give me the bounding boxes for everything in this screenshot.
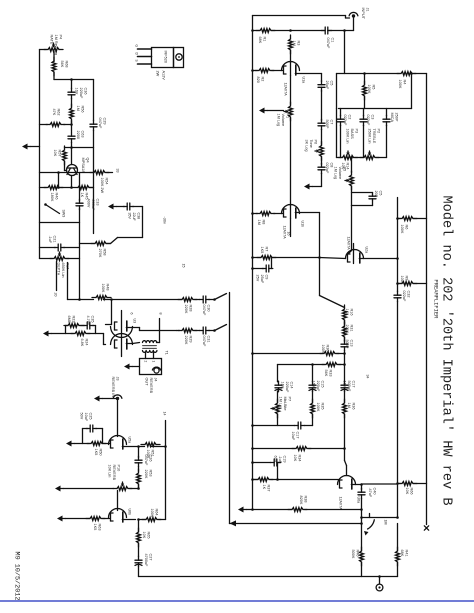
resistor R1	[256, 29, 275, 33]
wire	[398, 283, 401, 285]
svg-text:500P: 500P	[325, 120, 329, 129]
label U1B type	[283, 226, 287, 240]
label R28 value	[184, 305, 193, 314]
wire	[253, 353, 323, 355]
wire	[111, 300, 113, 325]
capacitor C38	[123, 203, 134, 210]
svg-text:12AX7A: 12AX7A	[284, 83, 288, 97]
label R24 value	[80, 339, 89, 347]
capacitor C2	[337, 115, 344, 126]
svg-text:1M: 1M	[76, 106, 80, 111]
wire	[321, 129, 323, 144]
wire	[40, 258, 53, 260]
label C1 value	[326, 38, 335, 49]
svg-text:C36: C36	[84, 88, 88, 95]
svg-text:U1a: U1a	[302, 77, 306, 84]
wire	[142, 207, 144, 238]
ground	[57, 516, 66, 522]
ground	[124, 364, 133, 370]
svg-text:6: 6	[130, 313, 134, 315]
svg-text:047uF: 047uF	[202, 336, 206, 347]
wire	[253, 448, 295, 450]
wire	[139, 328, 141, 331]
wire	[107, 172, 113, 174]
svg-text:820: 820	[256, 77, 260, 83]
label R40 value	[351, 550, 360, 559]
svg-text:1K8: 1K8	[345, 309, 349, 316]
svg-text:TREBLE: TREBLE	[372, 129, 376, 144]
VR1 pin S lead	[138, 63, 152, 65]
svg-text:220K: 220K	[184, 305, 188, 314]
capacitor C32	[394, 291, 401, 302]
svg-text:J3: J3	[116, 377, 120, 381]
wire wiper P17	[56, 262, 58, 291]
title text	[439, 196, 454, 506]
potentiometer P2	[360, 156, 379, 160]
node 14	[163, 412, 167, 416]
svg-text:33: 33	[116, 169, 120, 173]
label R64 value	[150, 509, 159, 518]
junction	[251, 478, 254, 481]
wire	[96, 428, 103, 430]
wire	[411, 74, 413, 109]
resistor R33	[322, 363, 341, 367]
svg-text:6M8: 6M8	[67, 316, 71, 323]
wire	[351, 187, 353, 206]
wire	[93, 80, 95, 121]
junction	[396, 257, 399, 260]
svg-text:1M Log: 1M Log	[333, 167, 337, 180]
resistor R54	[90, 171, 109, 175]
svg-text:2200: 2200	[76, 131, 80, 139]
wire	[272, 70, 283, 72]
svg-text:56K: 56K	[324, 370, 328, 377]
triode U3a	[111, 321, 133, 338]
junction	[410, 72, 413, 75]
label R16 value	[345, 309, 354, 316]
svg-text:2W: 2W	[156, 71, 160, 77]
label C36 value	[74, 88, 87, 99]
junction	[70, 78, 73, 81]
svg-text:10uF: 10uF	[84, 413, 88, 422]
svg-text:R41: R41	[405, 550, 409, 557]
svg-text:U6a: U6a	[357, 497, 361, 504]
svg-text:R30: R30	[326, 345, 330, 352]
wire plate U1B	[290, 206, 292, 219]
svg-text:R2: R2	[261, 77, 265, 82]
label C2 value	[343, 115, 352, 126]
label R68 value	[60, 61, 69, 68]
svg-text:C31: C31	[207, 336, 211, 343]
wire	[138, 544, 140, 557]
svg-text:220uF: 220uF	[79, 88, 83, 99]
label C17 value	[291, 432, 300, 441]
wire	[40, 124, 48, 126]
resistor R45	[74, 186, 93, 190]
svg-text:C17: C17	[296, 432, 300, 439]
label U6A type	[339, 497, 343, 511]
svg-text:100K: 100K	[150, 509, 154, 518]
svg-text:25V: 25V	[255, 275, 259, 282]
wire	[397, 198, 399, 219]
wire	[397, 563, 399, 577]
triode U1B	[282, 205, 300, 219]
junction	[251, 29, 254, 32]
label C33 value	[86, 199, 99, 212]
wire	[321, 74, 323, 82]
wire	[346, 17, 350, 19]
svg-text:P2: P2	[377, 129, 381, 134]
wire	[278, 462, 281, 464]
wire	[345, 16, 347, 19]
resistor R56	[70, 104, 74, 123]
junction	[251, 424, 254, 427]
wire	[253, 462, 271, 464]
potentiometer P6	[320, 142, 324, 161]
capacitor C25	[86, 425, 97, 432]
wire	[340, 125, 342, 157]
label C32 value	[402, 291, 411, 302]
svg-text:100K: 100K	[321, 345, 325, 354]
svg-text:R29: R29	[189, 336, 193, 343]
wire	[339, 364, 345, 366]
svg-text:1K5: 1K5	[260, 247, 264, 254]
svg-text:C3: C3	[371, 115, 375, 120]
svg-text:10K: 10K	[293, 455, 297, 462]
wire	[361, 563, 363, 577]
label C63 value	[76, 131, 85, 139]
svg-text:R24: R24	[85, 339, 89, 346]
svg-text:R9: R9	[405, 276, 409, 281]
junction	[251, 256, 254, 259]
junction	[164, 445, 167, 448]
svg-text:820K: 820K	[299, 496, 303, 505]
wire	[53, 73, 55, 80]
svg-text:C17: C17	[352, 381, 356, 388]
potentiometer P2 wiper	[368, 151, 371, 156]
svg-text:1M: 1M	[292, 41, 296, 46]
label R29 value	[184, 336, 193, 345]
svg-text:047uF: 047uF	[326, 38, 330, 49]
capacitor C15	[309, 381, 316, 392]
capacitor C21	[54, 244, 65, 251]
svg-text:100K: 100K	[398, 80, 402, 89]
svg-text:C5: C5	[330, 81, 334, 86]
label C27 value	[144, 554, 153, 568]
label U3	[133, 319, 137, 324]
label C38 value	[128, 213, 141, 222]
junction	[137, 487, 140, 490]
svg-text:68K: 68K	[400, 550, 404, 557]
potentiometer P1 wiper	[284, 110, 289, 113]
wire	[58, 173, 60, 188]
label C3 value	[366, 115, 375, 126]
junction	[343, 29, 346, 32]
junction	[396, 217, 399, 220]
switch SW1 arrow	[364, 531, 369, 536]
svg-text:R28: R28	[189, 305, 193, 312]
wire	[290, 76, 292, 105]
resistor R30	[320, 352, 339, 356]
svg-text:C8: C8	[330, 163, 334, 168]
wire	[277, 463, 279, 480]
wire	[290, 118, 292, 206]
wire	[273, 257, 320, 259]
label R35 value	[316, 403, 325, 412]
capacitor C26	[135, 456, 142, 467]
wire	[361, 485, 363, 490]
switch SW1 blade	[368, 520, 375, 529]
svg-text:100K: 100K	[101, 284, 105, 293]
node 6	[130, 313, 134, 315]
svg-text:1M Log: 1M Log	[278, 397, 282, 410]
wire	[71, 176, 73, 188]
junction	[110, 298, 113, 301]
wire	[337, 73, 400, 75]
wire	[93, 325, 96, 327]
wire jack tip	[353, 18, 355, 31]
label P5 value	[333, 167, 346, 180]
wire	[138, 447, 140, 458]
wire	[362, 483, 398, 485]
svg-text:R64: R64	[155, 509, 159, 516]
ground	[43, 331, 52, 337]
label SW1	[384, 520, 388, 525]
junction	[396, 516, 399, 519]
wire	[272, 30, 325, 32]
svg-text:C1: C1	[331, 38, 335, 43]
switch SW4 blade	[215, 294, 227, 300]
wire	[253, 30, 260, 32]
label R58 value	[98, 249, 107, 258]
label R5 value	[367, 85, 376, 94]
wire	[344, 415, 346, 461]
label R50 value	[94, 449, 103, 456]
label R23 value	[67, 316, 76, 323]
svg-text:R56: R56	[81, 106, 85, 113]
wire	[321, 91, 323, 121]
svg-text:15: 15	[182, 264, 186, 268]
svg-text:35V: 35V	[128, 213, 132, 220]
wire	[344, 351, 346, 382]
wire	[336, 109, 338, 158]
svg-text:P5: P5	[343, 167, 347, 172]
svg-text:C35: C35	[91, 316, 95, 323]
svg-text:R7: R7	[265, 247, 269, 252]
svg-text:IRF520: IRF520	[164, 51, 168, 63]
svg-text:022uF: 022uF	[343, 115, 347, 126]
label J1	[361, 8, 370, 20]
label T1	[165, 351, 169, 355]
junction	[396, 482, 399, 485]
resistor R65	[137, 528, 141, 547]
junction	[396, 282, 399, 285]
wire	[253, 15, 346, 17]
label R7 value	[260, 247, 269, 254]
wire	[104, 443, 111, 445]
svg-text:1K5: 1K5	[93, 524, 97, 531]
resistor R29	[178, 329, 197, 333]
svg-text:C40: C40	[373, 488, 377, 495]
wire	[414, 218, 427, 220]
svg-text:REVERB: REVERB	[149, 378, 153, 394]
resistor R36	[343, 399, 347, 418]
junction	[251, 212, 254, 215]
wire	[305, 425, 313, 427]
svg-text:47K: 47K	[52, 109, 56, 116]
wire	[177, 330, 180, 332]
label U2A	[365, 247, 369, 254]
wire	[344, 31, 346, 74]
svg-text:022uF: 022uF	[325, 163, 329, 174]
label U6B	[128, 509, 132, 516]
svg-text:Mid-Bite: Mid-Bite	[283, 397, 287, 411]
label R65 value	[142, 532, 151, 539]
label R30 value	[321, 345, 330, 354]
wire plate U1A	[290, 63, 292, 76]
svg-text:C26: C26	[149, 455, 153, 462]
ground	[55, 486, 64, 492]
svg-text:R31: R31	[350, 325, 354, 332]
label C40 value	[368, 488, 377, 498]
resistor R23	[64, 324, 83, 328]
svg-text:C27: C27	[149, 554, 153, 561]
label C19 value	[273, 456, 286, 464]
wire	[64, 162, 66, 171]
capacitor C27	[135, 556, 142, 567]
wire mid rail	[79, 173, 81, 201]
svg-text:12AX7A: 12AX7A	[347, 237, 351, 251]
capacitor C40	[358, 488, 365, 499]
capacitor C1	[321, 27, 332, 34]
triode U3b	[111, 334, 133, 350]
resistor R34	[292, 447, 311, 451]
ground arrow tick	[230, 520, 237, 526]
wire	[349, 251, 352, 254]
wire	[253, 213, 258, 215]
label P3 value	[345, 129, 358, 144]
switch SW1 contact	[369, 514, 371, 518]
resistor R51	[141, 443, 160, 447]
junction	[137, 445, 140, 448]
ground	[94, 396, 103, 402]
wire	[71, 99, 73, 107]
label C35 value	[86, 316, 95, 326]
svg-text:20: 20	[54, 293, 58, 297]
capacitor C10	[369, 194, 376, 201]
potentiometer P1	[289, 102, 293, 121]
svg-text:500uF: 500uF	[347, 381, 351, 392]
svg-text:R53: R53	[149, 470, 153, 477]
terminal X	[424, 526, 428, 530]
resistor R31	[343, 322, 347, 341]
wire	[209, 299, 214, 301]
wire	[321, 173, 323, 186]
label U5A	[128, 437, 132, 444]
wire	[138, 467, 140, 472]
triode U5a	[109, 436, 127, 450]
svg-text:22uF: 22uF	[132, 213, 136, 222]
wire	[309, 448, 345, 450]
ground	[66, 441, 75, 447]
switch SW2 blade	[111, 238, 118, 244]
wire	[40, 222, 80, 224]
svg-text:C14: C14	[290, 382, 294, 389]
svg-text:100K: 100K	[316, 403, 320, 412]
wire	[61, 187, 74, 189]
potentiometer P10	[113, 487, 132, 491]
wire	[40, 172, 94, 174]
wire	[103, 334, 105, 345]
wire	[398, 218, 401, 220]
resistor R5	[363, 81, 367, 100]
svg-text:C15: C15	[321, 381, 325, 388]
footer rule	[0, 600, 474, 602]
wire plate U3	[121, 311, 123, 357]
junction	[70, 186, 73, 189]
wire	[67, 258, 80, 260]
svg-text:4700uF: 4700uF	[144, 554, 148, 568]
junction	[360, 516, 363, 519]
svg-text:Model no. 202 '20th Imperial': Model no. 202 '20th Imperial' HW rev B	[439, 196, 454, 506]
svg-text:14: 14	[163, 412, 167, 416]
wire cathode U6a	[351, 484, 361, 486]
label VR1 output	[162, 71, 166, 81]
wire	[153, 353, 155, 359]
wire	[320, 296, 345, 308]
label R45 value	[80, 193, 89, 200]
wire plate U2A	[353, 244, 355, 264]
svg-text:R23: R23	[72, 316, 76, 323]
capacitor C3	[360, 115, 367, 126]
label R63 value	[93, 524, 102, 531]
jack J1	[349, 12, 358, 17]
svg-text:047uF: 047uF	[202, 305, 206, 316]
wire	[352, 205, 373, 207]
label R54 value	[100, 178, 109, 194]
junction	[213, 329, 216, 332]
label C13 value	[345, 340, 354, 349]
svg-text:10K: 10K	[53, 150, 57, 157]
wire	[253, 425, 295, 427]
wire left rail	[39, 50, 41, 259]
wire	[344, 391, 346, 402]
label R33 value	[324, 370, 333, 377]
label C10 value	[374, 191, 383, 198]
svg-text:-36v: -36v	[163, 217, 167, 224]
wire	[65, 326, 67, 334]
wire	[364, 74, 366, 85]
label R34 value	[293, 455, 302, 462]
wire	[397, 219, 399, 292]
label C26 value	[144, 455, 153, 466]
svg-text:C2: C2	[348, 115, 352, 120]
node 8	[159, 313, 163, 315]
wire	[83, 428, 88, 430]
wire	[271, 479, 339, 481]
ground	[259, 108, 268, 114]
svg-text:1M: 1M	[347, 403, 351, 408]
capacitor C7	[318, 119, 325, 130]
wire	[40, 247, 56, 249]
svg-text:R65: R65	[147, 532, 151, 539]
resistor R24	[71, 332, 90, 336]
svg-text:12AX7A: 12AX7A	[283, 226, 287, 240]
svg-text:C9: C9	[265, 275, 269, 280]
wire	[290, 219, 292, 237]
svg-text:1K: 1K	[80, 193, 84, 198]
regulator VR1 hole	[176, 54, 182, 60]
